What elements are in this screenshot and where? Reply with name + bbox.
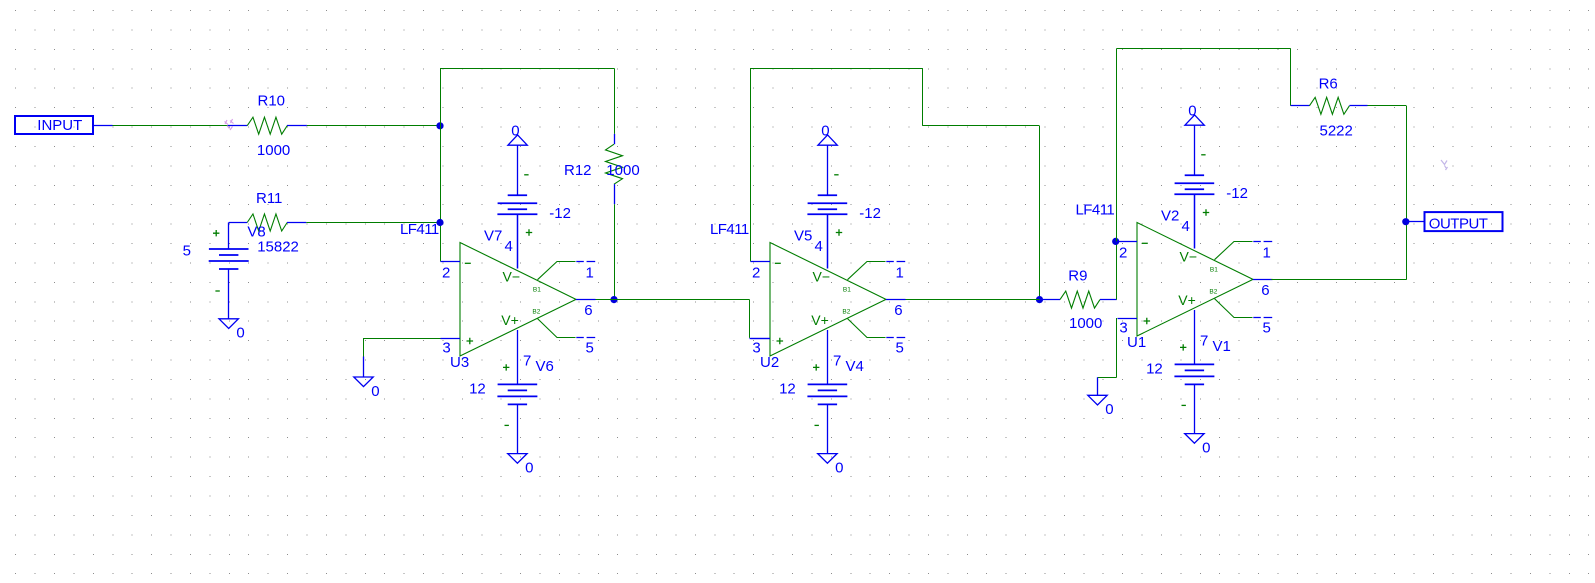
voltage source V2 lead from ground bbox=[1194, 125, 1196, 175]
svg-text:0: 0 bbox=[525, 459, 533, 476]
R9 right lead bbox=[1100, 299, 1117, 301]
ground below V4 bbox=[818, 454, 837, 464]
voltage source V6 plus mark bbox=[503, 364, 509, 370]
U3 pin 1 (balance) graphics bbox=[538, 262, 576, 280]
svg-text:U3: U3 bbox=[450, 354, 469, 371]
U1 pin 1 lead dashes bbox=[1253, 241, 1272, 243]
U3 inverting input minus mark bbox=[465, 262, 471, 264]
svg-text:LF411: LF411 bbox=[400, 221, 439, 238]
wire R9 up to U1 pin 2 bbox=[1116, 241, 1118, 299]
svg-text:15822: 15822 bbox=[257, 239, 299, 256]
V8 lead to ground bbox=[228, 269, 230, 319]
svg-text:0: 0 bbox=[1202, 439, 1210, 456]
U2 pin 5 (balance) graphics bbox=[848, 319, 886, 338]
voltage source V7 bbox=[497, 195, 537, 214]
R10 right lead bbox=[287, 125, 307, 127]
V8 top lead vertical bbox=[228, 223, 230, 250]
feedback top wire stage 3 bbox=[1117, 48, 1291, 50]
ground above V7 bbox=[508, 135, 527, 145]
svg-text:0: 0 bbox=[236, 325, 244, 342]
svg-text:5: 5 bbox=[586, 339, 594, 356]
wire R11 to node at inverting branch bbox=[306, 222, 440, 224]
svg-text:12: 12 bbox=[469, 381, 486, 398]
U1 pin 3 lead bbox=[1118, 318, 1138, 320]
svg-text:0: 0 bbox=[821, 122, 829, 139]
svg-text:V−: V− bbox=[1180, 249, 1198, 265]
wire down to R6 bbox=[1290, 48, 1292, 105]
svg-text:4: 4 bbox=[1182, 218, 1190, 235]
U1 pin 5 lead dashes bbox=[1253, 317, 1272, 319]
voltage source V2 plus mark bbox=[1203, 209, 1209, 215]
svg-text:7: 7 bbox=[1200, 332, 1208, 349]
svg-text:0: 0 bbox=[371, 383, 379, 400]
svg-text:V+: V+ bbox=[811, 312, 829, 328]
junction U2 output / feedback bbox=[1036, 296, 1043, 303]
R6 zigzag body bbox=[1309, 97, 1349, 114]
wire INPUT to R10 bbox=[113, 125, 228, 127]
voltage source V4 plus mark bbox=[813, 364, 819, 370]
U3 non-inverting input plus mark bbox=[467, 338, 474, 345]
U1 pin 1 (balance) graphics bbox=[1215, 242, 1253, 260]
stray artifact near R10 lead bbox=[225, 119, 234, 130]
wire left to ground at U1 pin 3 bbox=[1098, 377, 1117, 379]
U2 inverting input minus mark bbox=[775, 262, 781, 264]
U3 pin 2 lead bbox=[441, 261, 461, 263]
junction R11 / feedback vertical bbox=[436, 219, 443, 226]
feedback top wire stage 1 bbox=[440, 68, 614, 70]
voltage source V7 lead to op-amp V- pin bbox=[517, 214, 519, 268]
svg-text:2: 2 bbox=[442, 264, 450, 281]
ground symbol at U3 pin 3 bbox=[354, 377, 373, 387]
voltage source V5 lead from ground bbox=[827, 145, 829, 195]
ground lead at U3 pin 3 bbox=[363, 357, 365, 378]
voltage source V1 plus mark bbox=[1180, 344, 1186, 350]
U2 pin 3 lead bbox=[751, 338, 771, 340]
U2 pin 2 lead bbox=[751, 261, 771, 263]
svg-text:R12: R12 bbox=[564, 162, 592, 179]
svg-text:V−: V− bbox=[503, 269, 521, 285]
svg-text:V4: V4 bbox=[846, 358, 864, 375]
U2 non-inverting input plus mark bbox=[777, 338, 784, 345]
U3 pin 5 (balance) graphics bbox=[538, 319, 576, 338]
svg-text:-12: -12 bbox=[1226, 185, 1248, 202]
svg-text:6: 6 bbox=[584, 302, 592, 319]
svg-text:4: 4 bbox=[815, 238, 823, 255]
svg-text:5: 5 bbox=[1263, 319, 1271, 336]
op-amp U1 (LF411) body bbox=[1137, 223, 1253, 337]
svg-text:V−: V− bbox=[813, 269, 831, 285]
U1 pin 4 lead bbox=[1194, 194, 1196, 248]
junction R10 / feedback vertical bbox=[436, 122, 443, 129]
voltage source V1 bbox=[1174, 364, 1214, 384]
svg-text:OUTPUT: OUTPUT bbox=[1429, 215, 1488, 232]
voltage source V1 lead to ground bbox=[1194, 384, 1196, 433]
feedback top wire stage 2 part 1 bbox=[750, 68, 923, 70]
R6 right lead bbox=[1349, 105, 1367, 107]
voltage source V6 minus mark bbox=[505, 424, 509, 426]
U3 pin 7 lead bbox=[517, 330, 519, 384]
wire R12 to U3 output bbox=[614, 204, 616, 299]
svg-text:7: 7 bbox=[523, 352, 531, 369]
voltage source V5 plus mark bbox=[836, 229, 842, 235]
wire down to U2 pin 3 bbox=[749, 300, 751, 338]
ground below V1 bbox=[1185, 434, 1204, 444]
wire ground to U3 pin 3 bbox=[364, 338, 441, 340]
svg-text:5: 5 bbox=[896, 339, 904, 356]
svg-text:R9: R9 bbox=[1068, 268, 1087, 285]
wire U3 output to U2 pin 3 branch bbox=[596, 299, 750, 301]
R6 left lead bbox=[1291, 105, 1310, 107]
INPUT port lead bbox=[93, 125, 113, 127]
ground lead at U1 pin 3 bbox=[1097, 377, 1099, 395]
svg-text:R10: R10 bbox=[258, 93, 286, 110]
svg-text:0: 0 bbox=[1105, 401, 1113, 418]
R12 top lead bbox=[614, 134, 616, 144]
ground below V6 bbox=[508, 454, 527, 464]
U2 pin 1 (balance) graphics bbox=[848, 262, 886, 280]
op-amp U3 (LF411) body bbox=[460, 243, 576, 357]
wire U1 output to OUTPUT vertical bbox=[1271, 279, 1406, 281]
U2 pin 3 wire stub bbox=[750, 338, 771, 340]
voltage source V6 lead to ground bbox=[517, 404, 519, 453]
svg-text:R11: R11 bbox=[256, 190, 282, 207]
feedback vertical stage 3 bbox=[1116, 48, 1118, 241]
svg-text:1: 1 bbox=[896, 264, 904, 281]
R11 zigzag body bbox=[247, 214, 287, 231]
voltage source V2 minus mark bbox=[1201, 154, 1205, 156]
port OUTPUT bbox=[1425, 212, 1503, 231]
R9 zigzag body bbox=[1060, 291, 1100, 308]
svg-text:2: 2 bbox=[1119, 244, 1127, 261]
svg-text:B2: B2 bbox=[842, 309, 850, 316]
voltage source V7 lead from ground bbox=[517, 145, 519, 195]
junction OUTPUT port bbox=[1402, 218, 1409, 225]
voltage source V2 bbox=[1174, 175, 1214, 194]
svg-text:6: 6 bbox=[1261, 282, 1269, 299]
ground above V5 bbox=[818, 135, 837, 145]
voltage source V5 lead to op-amp V- pin bbox=[827, 214, 829, 268]
svg-text:V+: V+ bbox=[501, 312, 519, 328]
U1 non-inverting input plus mark bbox=[1144, 318, 1151, 325]
U3 pin 1 lead dashes bbox=[576, 261, 595, 263]
voltage source V4 minus mark bbox=[815, 424, 819, 426]
svg-text:B2: B2 bbox=[1209, 289, 1217, 296]
junction U1 pin 2 / feedback bbox=[1112, 238, 1119, 245]
svg-text:LF411: LF411 bbox=[710, 221, 749, 238]
R12 bottom lead bbox=[614, 184, 616, 204]
R10 zigzag body bbox=[247, 117, 287, 134]
U2 pin 6 output lead bbox=[886, 299, 906, 301]
voltage source V7 minus mark bbox=[524, 174, 528, 176]
svg-text:5: 5 bbox=[183, 243, 191, 260]
voltage source V5 minus mark bbox=[834, 174, 838, 176]
feedback vertical to U2 pin 2 bbox=[750, 68, 752, 261]
svg-text:5222: 5222 bbox=[1320, 123, 1353, 140]
stray artifact above OUTPUT bbox=[1441, 160, 1448, 170]
voltage source V4 lead to ground bbox=[827, 404, 829, 453]
svg-text:4: 4 bbox=[505, 238, 513, 255]
wire R6 to output vertical bbox=[1368, 105, 1407, 107]
wire R10 to node at inverting branch bbox=[307, 125, 440, 127]
voltage source V1 minus mark bbox=[1182, 404, 1186, 406]
svg-text:-12: -12 bbox=[549, 205, 571, 222]
svg-text:1: 1 bbox=[1263, 244, 1271, 261]
R11 right lead bbox=[287, 222, 306, 224]
voltage source V5 bbox=[807, 195, 847, 214]
svg-text:V5: V5 bbox=[794, 227, 812, 244]
svg-text:U2: U2 bbox=[760, 354, 779, 371]
svg-text:-12: -12 bbox=[859, 205, 881, 222]
feedback vertical down to U2 output bbox=[1039, 126, 1041, 300]
svg-text:6: 6 bbox=[894, 302, 902, 319]
R9 left lead bbox=[1040, 299, 1061, 301]
U1 pin 6 output lead bbox=[1253, 279, 1273, 281]
svg-text:1000: 1000 bbox=[257, 142, 290, 159]
svg-text:V7: V7 bbox=[484, 227, 502, 244]
junction U3 output / R12 bbox=[610, 296, 617, 303]
svg-text:V8: V8 bbox=[247, 223, 265, 240]
svg-text:B1: B1 bbox=[1210, 267, 1218, 274]
U3 pin 4 lead bbox=[517, 214, 519, 268]
svg-text:1000: 1000 bbox=[1069, 315, 1102, 332]
voltage source V2 lead to op-amp V- pin bbox=[1194, 194, 1196, 248]
svg-text:LF411: LF411 bbox=[1076, 201, 1115, 218]
V8 top lead horizontal / R11 left lead bbox=[229, 222, 248, 224]
svg-text:0: 0 bbox=[835, 459, 843, 476]
ground below V8 bbox=[219, 319, 238, 329]
op-amp U2 (LF411) body bbox=[770, 243, 886, 357]
svg-text:7: 7 bbox=[833, 352, 841, 369]
wire U2 output to junction bbox=[906, 299, 1040, 301]
V8 minus mark bbox=[215, 290, 219, 292]
svg-text:B2: B2 bbox=[532, 309, 540, 316]
svg-text:0: 0 bbox=[511, 122, 519, 139]
svg-text:INPUT: INPUT bbox=[37, 117, 82, 134]
wire down to R12 bbox=[614, 68, 616, 134]
svg-text:0: 0 bbox=[1188, 102, 1196, 119]
V8 battery plates bbox=[209, 249, 249, 269]
voltage source V4 bbox=[807, 384, 847, 404]
ground above V2 bbox=[1185, 115, 1204, 125]
svg-text:B1: B1 bbox=[533, 287, 541, 294]
U3 pin 3 lead bbox=[441, 338, 461, 340]
svg-text:1: 1 bbox=[586, 264, 594, 281]
svg-text:12: 12 bbox=[779, 381, 796, 398]
R10 left lead bbox=[228, 125, 247, 127]
port INPUT bbox=[15, 116, 93, 134]
ground symbol at U1 pin 3 bbox=[1088, 395, 1107, 405]
wire down from U3 pin 3 branch bbox=[363, 338, 365, 357]
OUTPUT port lead bbox=[1406, 221, 1424, 223]
U1 pin 2 lead bbox=[1118, 241, 1138, 243]
svg-text:U1: U1 bbox=[1127, 334, 1146, 351]
U1 inverting input minus mark bbox=[1142, 242, 1148, 244]
vertical wire to U3 pin 2 bbox=[440, 68, 442, 261]
wire down to U1 output bbox=[1406, 106, 1408, 280]
U2 pin 4 lead bbox=[827, 214, 829, 268]
svg-text:V2: V2 bbox=[1161, 207, 1179, 224]
feedback step vertical stage 2 bbox=[922, 68, 924, 126]
svg-text:12: 12 bbox=[1146, 361, 1163, 378]
svg-text:V+: V+ bbox=[1178, 292, 1196, 308]
U2 pin 7 lead bbox=[827, 330, 829, 384]
U2 pin 5 lead dashes bbox=[886, 337, 905, 339]
U2 pin 1 lead dashes bbox=[886, 261, 905, 263]
R12 zigzag body bbox=[606, 144, 623, 184]
feedback top wire stage 2 part 2 bbox=[923, 125, 1040, 127]
svg-text:V6: V6 bbox=[536, 358, 554, 375]
svg-text:B1: B1 bbox=[843, 287, 851, 294]
svg-text:V1: V1 bbox=[1213, 338, 1231, 355]
U3 pin 5 lead dashes bbox=[576, 337, 595, 339]
U1 pin 7 lead bbox=[1194, 310, 1196, 364]
V8 plus mark bbox=[213, 230, 219, 236]
svg-text:R6: R6 bbox=[1319, 76, 1338, 93]
svg-text:1000: 1000 bbox=[606, 162, 639, 179]
svg-text:2: 2 bbox=[752, 264, 760, 281]
wire down from U1 pin 3 bbox=[1116, 318, 1118, 377]
voltage source V7 plus mark bbox=[526, 229, 532, 235]
U3 pin 6 output lead bbox=[576, 299, 596, 301]
voltage source V6 bbox=[497, 384, 537, 404]
U1 pin 5 (balance) graphics bbox=[1215, 299, 1253, 318]
